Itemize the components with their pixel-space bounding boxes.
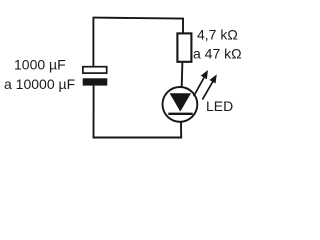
svg-text:LED: LED [206,98,233,114]
svg-text:a 47 kΩ: a 47 kΩ [193,46,242,62]
svg-text:1000 µF: 1000 µF [14,57,66,73]
svg-text:4,7 kΩ: 4,7 kΩ [197,27,238,43]
svg-text:a 10000 µF: a 10000 µF [4,76,75,92]
